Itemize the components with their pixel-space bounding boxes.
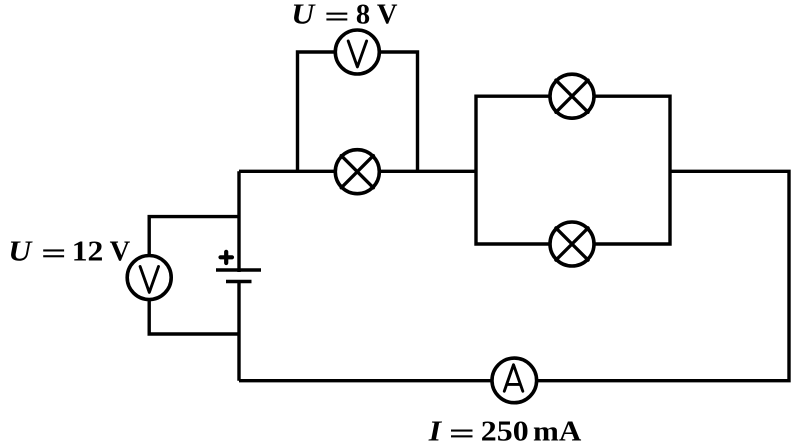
svg-text:V: V: [377, 0, 398, 31]
svg-text:mA: mA: [533, 416, 582, 446]
svg-text:12: 12: [72, 235, 104, 267]
svg-text:U: U: [8, 235, 33, 267]
svg-text:V: V: [110, 236, 131, 267]
svg-text:U: U: [291, 0, 316, 30]
svg-text:I: I: [428, 415, 443, 446]
svg-text:8: 8: [356, 0, 370, 31]
svg-text:250: 250: [481, 415, 529, 446]
